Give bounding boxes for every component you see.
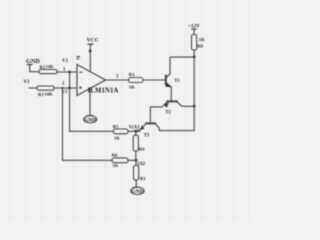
svg-text:1K: 1K — [112, 163, 118, 168]
svg-text:R1: R1 — [140, 176, 146, 181]
wire collector T1 to rail — [170, 56, 194, 58]
svg-text:14K: 14K — [45, 91, 54, 96]
node V1 pin1 — [62, 59, 71, 73]
resistor R6 — [112, 152, 128, 167]
power VCC — [87, 38, 99, 72]
wire feedback B — [63, 88, 113, 160]
svg-text:GND: GND — [131, 189, 143, 195]
wire — [54, 87, 77, 89]
svg-text:VCC: VCC — [87, 38, 99, 44]
resistor R5 — [113, 124, 128, 141]
svg-text:14K: 14K — [46, 64, 55, 69]
svg-text:1K: 1K — [199, 37, 205, 42]
wire — [143, 79, 165, 81]
wire output pin3 — [106, 75, 129, 80]
node rail-T2 — [193, 105, 196, 108]
wire — [135, 180, 137, 188]
svg-text:1K: 1K — [129, 84, 135, 89]
svg-text:R5: R5 — [113, 124, 119, 129]
svg-text:R4: R4 — [139, 146, 145, 151]
node V1 source — [24, 80, 38, 88]
svg-text:R8: R8 — [197, 44, 203, 49]
svg-text:R3: R3 — [129, 72, 135, 77]
rail wire — [159, 50, 194, 131]
svg-text:V1: V1 — [62, 59, 69, 64]
node pin2 — [61, 81, 71, 89]
ground bottom — [131, 187, 145, 195]
svg-text:1K: 1K — [114, 136, 120, 141]
resistor R1 — [134, 166, 147, 181]
wire feedback A — [70, 72, 114, 131]
wire node V(A1) — [128, 125, 141, 132]
wire — [135, 160, 137, 165]
svg-text:T1: T1 — [174, 79, 180, 84]
resistor R3 1K — [129, 72, 144, 90]
transistor T2 — [150, 101, 194, 123]
ground op-amp — [84, 89, 97, 124]
svg-text:V1: V1 — [24, 80, 31, 85]
wire — [135, 151, 137, 160]
resistor R4 — [133, 135, 145, 151]
wire node V(A2) — [128, 159, 146, 167]
svg-text:ILM1N1A: ILM1N1A — [88, 88, 119, 95]
svg-text:V(A1: V(A1 — [129, 125, 141, 130]
svg-text:R6: R6 — [112, 152, 118, 157]
node rail-T1 — [193, 56, 196, 59]
transistor T1 — [166, 57, 181, 101]
svg-text:R3: R3 — [38, 92, 44, 97]
resistor R2 — [39, 64, 57, 74]
resistor R8 1K — [192, 35, 206, 51]
op-amp U1 — [62, 57, 119, 96]
svg-text:U1: U1 — [62, 90, 68, 95]
ground — [26, 58, 40, 72]
svg-text:T3: T3 — [144, 134, 150, 139]
svg-text:T2: T2 — [165, 111, 171, 116]
transistor T3 — [136, 123, 159, 138]
power +12V — [188, 24, 200, 35]
wire — [135, 131, 137, 135]
resistor R3 14K — [37, 86, 54, 97]
wire — [57, 71, 77, 73]
svg-text:GND: GND — [84, 117, 96, 123]
